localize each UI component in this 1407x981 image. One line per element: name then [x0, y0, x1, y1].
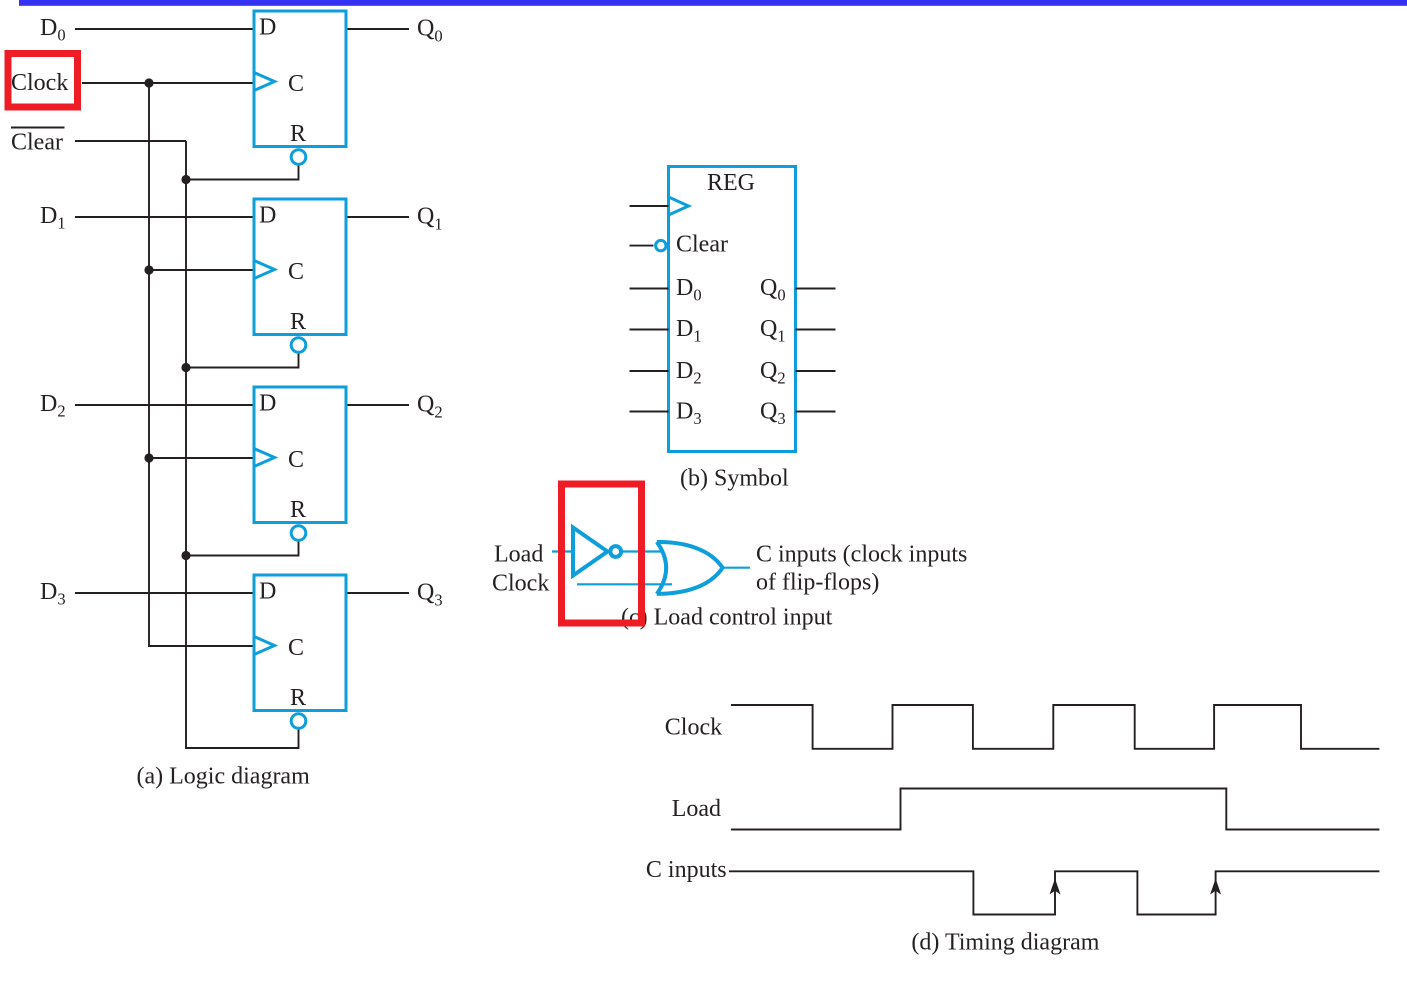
- wire symbol clear stub: [630, 245, 654, 247]
- svg-text:of flip-flops): of flip-flops): [756, 570, 879, 596]
- wire Clock branch to FF2 C: [149, 269, 254, 271]
- flip-flop FF1 box: [254, 11, 346, 164]
- svg-text:R: R: [290, 685, 306, 711]
- svg-text:R: R: [290, 497, 306, 523]
- node clear junction FF3: [181, 551, 190, 560]
- svg-text:Q0: Q0: [760, 275, 786, 305]
- svg-text:Q1: Q1: [417, 204, 443, 234]
- wire D1 input: [75, 216, 254, 218]
- flip-flop FF2 box: [254, 199, 346, 352]
- svg-text:D3: D3: [40, 579, 66, 609]
- waveform Clock: [731, 705, 1379, 749]
- inverter U1 bubble: [610, 546, 621, 557]
- wire symbol Q0 stub: [796, 288, 836, 290]
- wire symbol Q3 stub: [796, 411, 836, 413]
- svg-text:C inputs (clock inputs: C inputs (clock inputs: [756, 542, 967, 568]
- wire Clock to OR gate: [577, 583, 672, 585]
- svg-text:Q3: Q3: [417, 580, 443, 610]
- wire Clock vertical bus: [149, 83, 254, 646]
- wire OR output: [723, 567, 750, 569]
- svg-text:D2: D2: [676, 358, 702, 388]
- wire Q0 output: [346, 28, 409, 30]
- svg-text:D0: D0: [676, 275, 702, 305]
- svg-text:C: C: [288, 71, 304, 97]
- wire Clear vertical bus: [186, 141, 299, 748]
- waveform C inputs: [729, 871, 1379, 914]
- svg-text:D: D: [259, 203, 276, 229]
- svg-text:(d) Timing diagram: (d) Timing diagram: [911, 930, 1099, 956]
- svg-text:Clear: Clear: [11, 130, 63, 156]
- node clock junction FF1: [144, 78, 153, 87]
- wire D2 input: [75, 404, 254, 406]
- node clear junction FF2: [181, 363, 190, 372]
- register symbol REG box: [656, 167, 796, 452]
- arrowhead rising edge 2: [1210, 879, 1221, 895]
- svg-text:Q2: Q2: [417, 392, 443, 422]
- svg-text:C: C: [288, 259, 304, 285]
- wire symbol clock stub: [630, 205, 669, 207]
- arrowhead rising edge 1: [1050, 879, 1061, 895]
- flip-flop FF3 box: [254, 387, 346, 540]
- svg-text:D2: D2: [40, 391, 66, 421]
- wire symbol D2 stub: [630, 370, 669, 372]
- symbol clock triangle: [669, 197, 689, 215]
- svg-text:Clock: Clock: [492, 571, 549, 597]
- svg-text:Load: Load: [672, 796, 721, 822]
- svg-text:Q3: Q3: [760, 399, 786, 429]
- wire symbol Q2 stub: [796, 370, 836, 372]
- svg-text:Load: Load: [494, 542, 543, 568]
- svg-text:R: R: [290, 121, 306, 147]
- red highlight box around inverter: [562, 484, 642, 623]
- wire FF1 R bubble to clear bus: [186, 164, 299, 180]
- flip-flop FF4 pin labels: [259, 579, 306, 711]
- svg-text:D1: D1: [40, 203, 66, 233]
- waveform Load: [731, 789, 1379, 830]
- wire Q1 output: [346, 216, 409, 218]
- svg-text:(a) Logic diagram: (a) Logic diagram: [137, 763, 311, 789]
- flip-flop FF1 pin labels: [259, 15, 306, 147]
- svg-text:Clock: Clock: [11, 70, 68, 96]
- red highlight box around Clock: [8, 54, 78, 108]
- svg-text:D3: D3: [676, 399, 702, 429]
- wire Load to inverter: [552, 550, 573, 552]
- wire symbol D3 stub: [630, 411, 669, 413]
- OR gate U2: [657, 542, 723, 594]
- wire symbol D1 stub: [630, 329, 669, 331]
- wire Clock branch to FF3 C: [149, 457, 254, 459]
- flip-flop FF2 pin labels: [259, 203, 306, 335]
- svg-text:D: D: [259, 391, 276, 417]
- svg-text:REG: REG: [707, 170, 755, 196]
- wire Clock input: [82, 82, 254, 84]
- wire D3 input: [75, 592, 254, 594]
- flip-flop FF3 pin labels: [259, 391, 306, 523]
- svg-text:Q1: Q1: [760, 316, 786, 346]
- svg-text:D1: D1: [676, 316, 702, 346]
- svg-text:Clock: Clock: [665, 715, 722, 741]
- svg-text:R: R: [290, 309, 306, 335]
- svg-text:(b) Symbol: (b) Symbol: [680, 466, 789, 492]
- svg-text:Q2: Q2: [760, 358, 786, 388]
- svg-text:Q0: Q0: [417, 16, 443, 46]
- node clock junction FF3: [144, 453, 153, 462]
- wire FF3 R bubble to clear bus: [186, 540, 299, 556]
- inverter U1 triangle: [573, 528, 608, 576]
- svg-text:C: C: [288, 635, 304, 661]
- svg-text:D: D: [259, 579, 276, 605]
- svg-text:C: C: [288, 447, 304, 473]
- wire Q2 output: [346, 404, 409, 406]
- wire symbol D0 stub: [630, 288, 669, 290]
- wire Q3 output: [346, 592, 409, 594]
- symbol clear bubble: [656, 240, 666, 250]
- svg-text:Clear: Clear: [676, 232, 728, 258]
- wire Clear input: [75, 140, 186, 142]
- svg-text:(c) Load control input: (c) Load control input: [621, 604, 833, 630]
- node clear junction FF1: [181, 175, 190, 184]
- wire FF2 R bubble to clear bus: [186, 352, 299, 368]
- wire symbol Q1 stub: [796, 329, 836, 331]
- wire inverter to OR gate: [623, 550, 663, 552]
- node clock junction FF2: [144, 265, 153, 274]
- flip-flop FF4 box: [254, 575, 346, 728]
- svg-text:D0: D0: [40, 15, 66, 45]
- svg-text:C inputs: C inputs: [646, 857, 727, 883]
- top blue banner bar: [19, 0, 1407, 6]
- svg-text:D: D: [259, 15, 276, 41]
- wire D0 input: [75, 28, 254, 30]
